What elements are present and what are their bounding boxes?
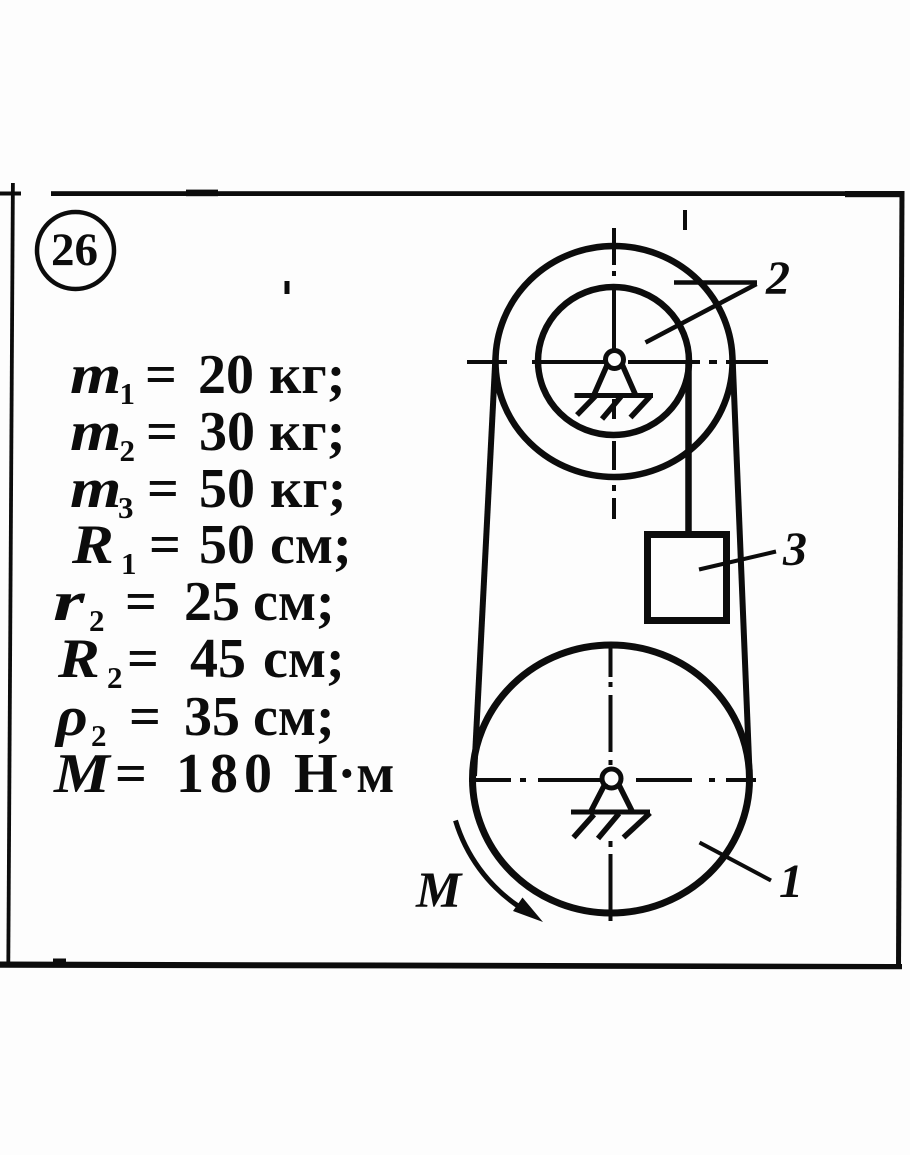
support hatching lower	[574, 813, 651, 839]
support triangle upper	[594, 363, 637, 396]
leader line to label 2 diagonal	[646, 284, 757, 343]
rope to load 3	[685, 363, 692, 535]
pivot circle lower	[602, 769, 621, 788]
leader line to label 3	[699, 552, 776, 570]
artifact dash top	[683, 210, 687, 230]
pulley 2 outer rim R2	[496, 246, 733, 477]
label M torque	[416, 866, 461, 917]
frame bottom bump	[53, 959, 66, 963]
label 2	[766, 255, 790, 303]
given data line R1	[72, 517, 114, 573]
support ground line upper	[575, 393, 654, 398]
support hatching upper	[577, 396, 650, 420]
frame bottom border	[0, 962, 902, 970]
given data line m2	[70, 404, 121, 460]
label 1	[779, 858, 803, 906]
frame top-left corner tick	[0, 192, 21, 196]
frame right border	[896, 191, 905, 968]
pulley 2 inner rim r2	[538, 287, 689, 435]
pulley 2 vertical centerline	[612, 228, 616, 519]
belt right side	[733, 356, 750, 772]
support triangle lower	[591, 783, 633, 812]
given data line r2	[53, 574, 85, 630]
load 3 box	[648, 535, 727, 621]
pivot circle upper	[606, 351, 624, 369]
leader line to label 2 horizontal	[674, 280, 757, 285]
pulley 2 horizontal centerline	[467, 360, 768, 364]
given data line rho2	[56, 689, 88, 745]
support ground line lower	[571, 810, 650, 815]
given data line R2	[58, 631, 100, 687]
problem number badge text 26	[51, 227, 98, 274]
belt left side	[474, 356, 496, 776]
given data line m3	[70, 461, 121, 517]
frame left border	[6, 183, 14, 965]
badge circle 26	[37, 212, 114, 289]
pulley 1 rim R1	[473, 645, 750, 913]
artifact dash left	[285, 281, 290, 294]
leader line to label 1	[700, 843, 772, 881]
given data line m1	[70, 347, 121, 403]
pulley 1 horizontal centerline	[469, 778, 756, 782]
torque arrow M arc	[456, 821, 519, 907]
given data line M	[54, 746, 110, 802]
label 3	[783, 526, 807, 574]
torque arrow head	[513, 898, 543, 923]
pulley 1 vertical centerline	[609, 646, 613, 921]
frame top border	[51, 190, 903, 198]
